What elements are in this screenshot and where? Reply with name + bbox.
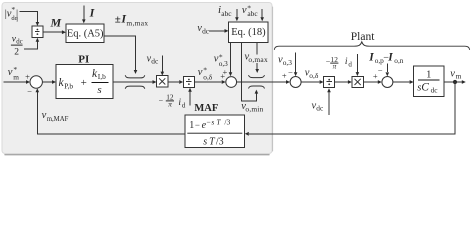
svg-text:d: d [348,60,352,68]
svg-text:v: v [8,67,13,78]
svg-text:−: − [206,118,210,127]
svg-text:o,min: o,min [245,104,263,113]
svg-text:M: M [50,16,62,30]
svg-text:o,n: o,n [394,56,403,65]
svg-text:+: + [282,71,287,81]
svg-text:|: | [16,9,18,20]
svg-text:s: s [211,118,214,127]
svg-text:MAF: MAF [194,103,218,114]
svg-text:m,max: m,max [126,19,148,28]
svg-text:dc: dc [316,104,324,113]
svg-text:+: + [223,67,228,77]
svg-text:−: − [195,120,200,130]
svg-text:P,b: P,b [64,81,73,90]
svg-text:C: C [421,82,429,94]
svg-text:s: s [97,84,101,96]
svg-text:+: + [81,77,87,89]
svg-text:1: 1 [189,120,194,131]
svg-text:I,b: I,b [98,72,106,81]
svg-text:s T: s T [203,137,216,148]
svg-text:Plant: Plant [351,31,375,43]
svg-text:abc: abc [221,9,232,18]
svg-text:+: + [25,71,30,81]
svg-text:v: v [450,68,455,79]
svg-text:−: − [27,86,32,96]
svg-text:/3: /3 [216,137,224,148]
svg-text:−: − [378,66,383,76]
svg-text:I: I [387,52,393,64]
svg-text:o,max: o,max [248,55,268,64]
svg-text:−: − [159,97,164,106]
svg-text:±: ± [115,13,121,25]
svg-text:Eq. (18): Eq. (18) [231,27,266,38]
svg-text:m: m [456,72,462,81]
svg-text:o,δ: o,δ [203,73,212,82]
svg-text:1: 1 [426,69,431,80]
svg-text:abc: abc [247,9,258,18]
svg-text:π: π [168,99,172,108]
svg-text:*: * [11,5,15,14]
svg-text:−: − [288,67,293,77]
svg-text:o,3: o,3 [219,59,228,68]
svg-text:o,δ: o,δ [309,71,319,80]
svg-text:dc: dc [16,38,22,45]
svg-text:/3: /3 [224,118,230,127]
svg-text:v: v [242,5,247,16]
svg-text:m,MAF: m,MAF [47,116,69,123]
svg-text:m: m [13,72,19,81]
svg-text:o,3: o,3 [283,58,293,67]
svg-text:Eq. (A5): Eq. (A5) [67,28,104,39]
svg-text:π: π [333,61,337,70]
svg-text:PI: PI [78,54,89,66]
svg-text:dc: dc [202,26,210,35]
svg-text:v: v [198,67,203,78]
svg-text:I: I [368,52,374,64]
svg-text:dc: dc [151,57,159,66]
svg-text:d: d [182,102,186,110]
svg-text:2: 2 [14,48,19,58]
svg-text:dc: dc [431,85,439,94]
